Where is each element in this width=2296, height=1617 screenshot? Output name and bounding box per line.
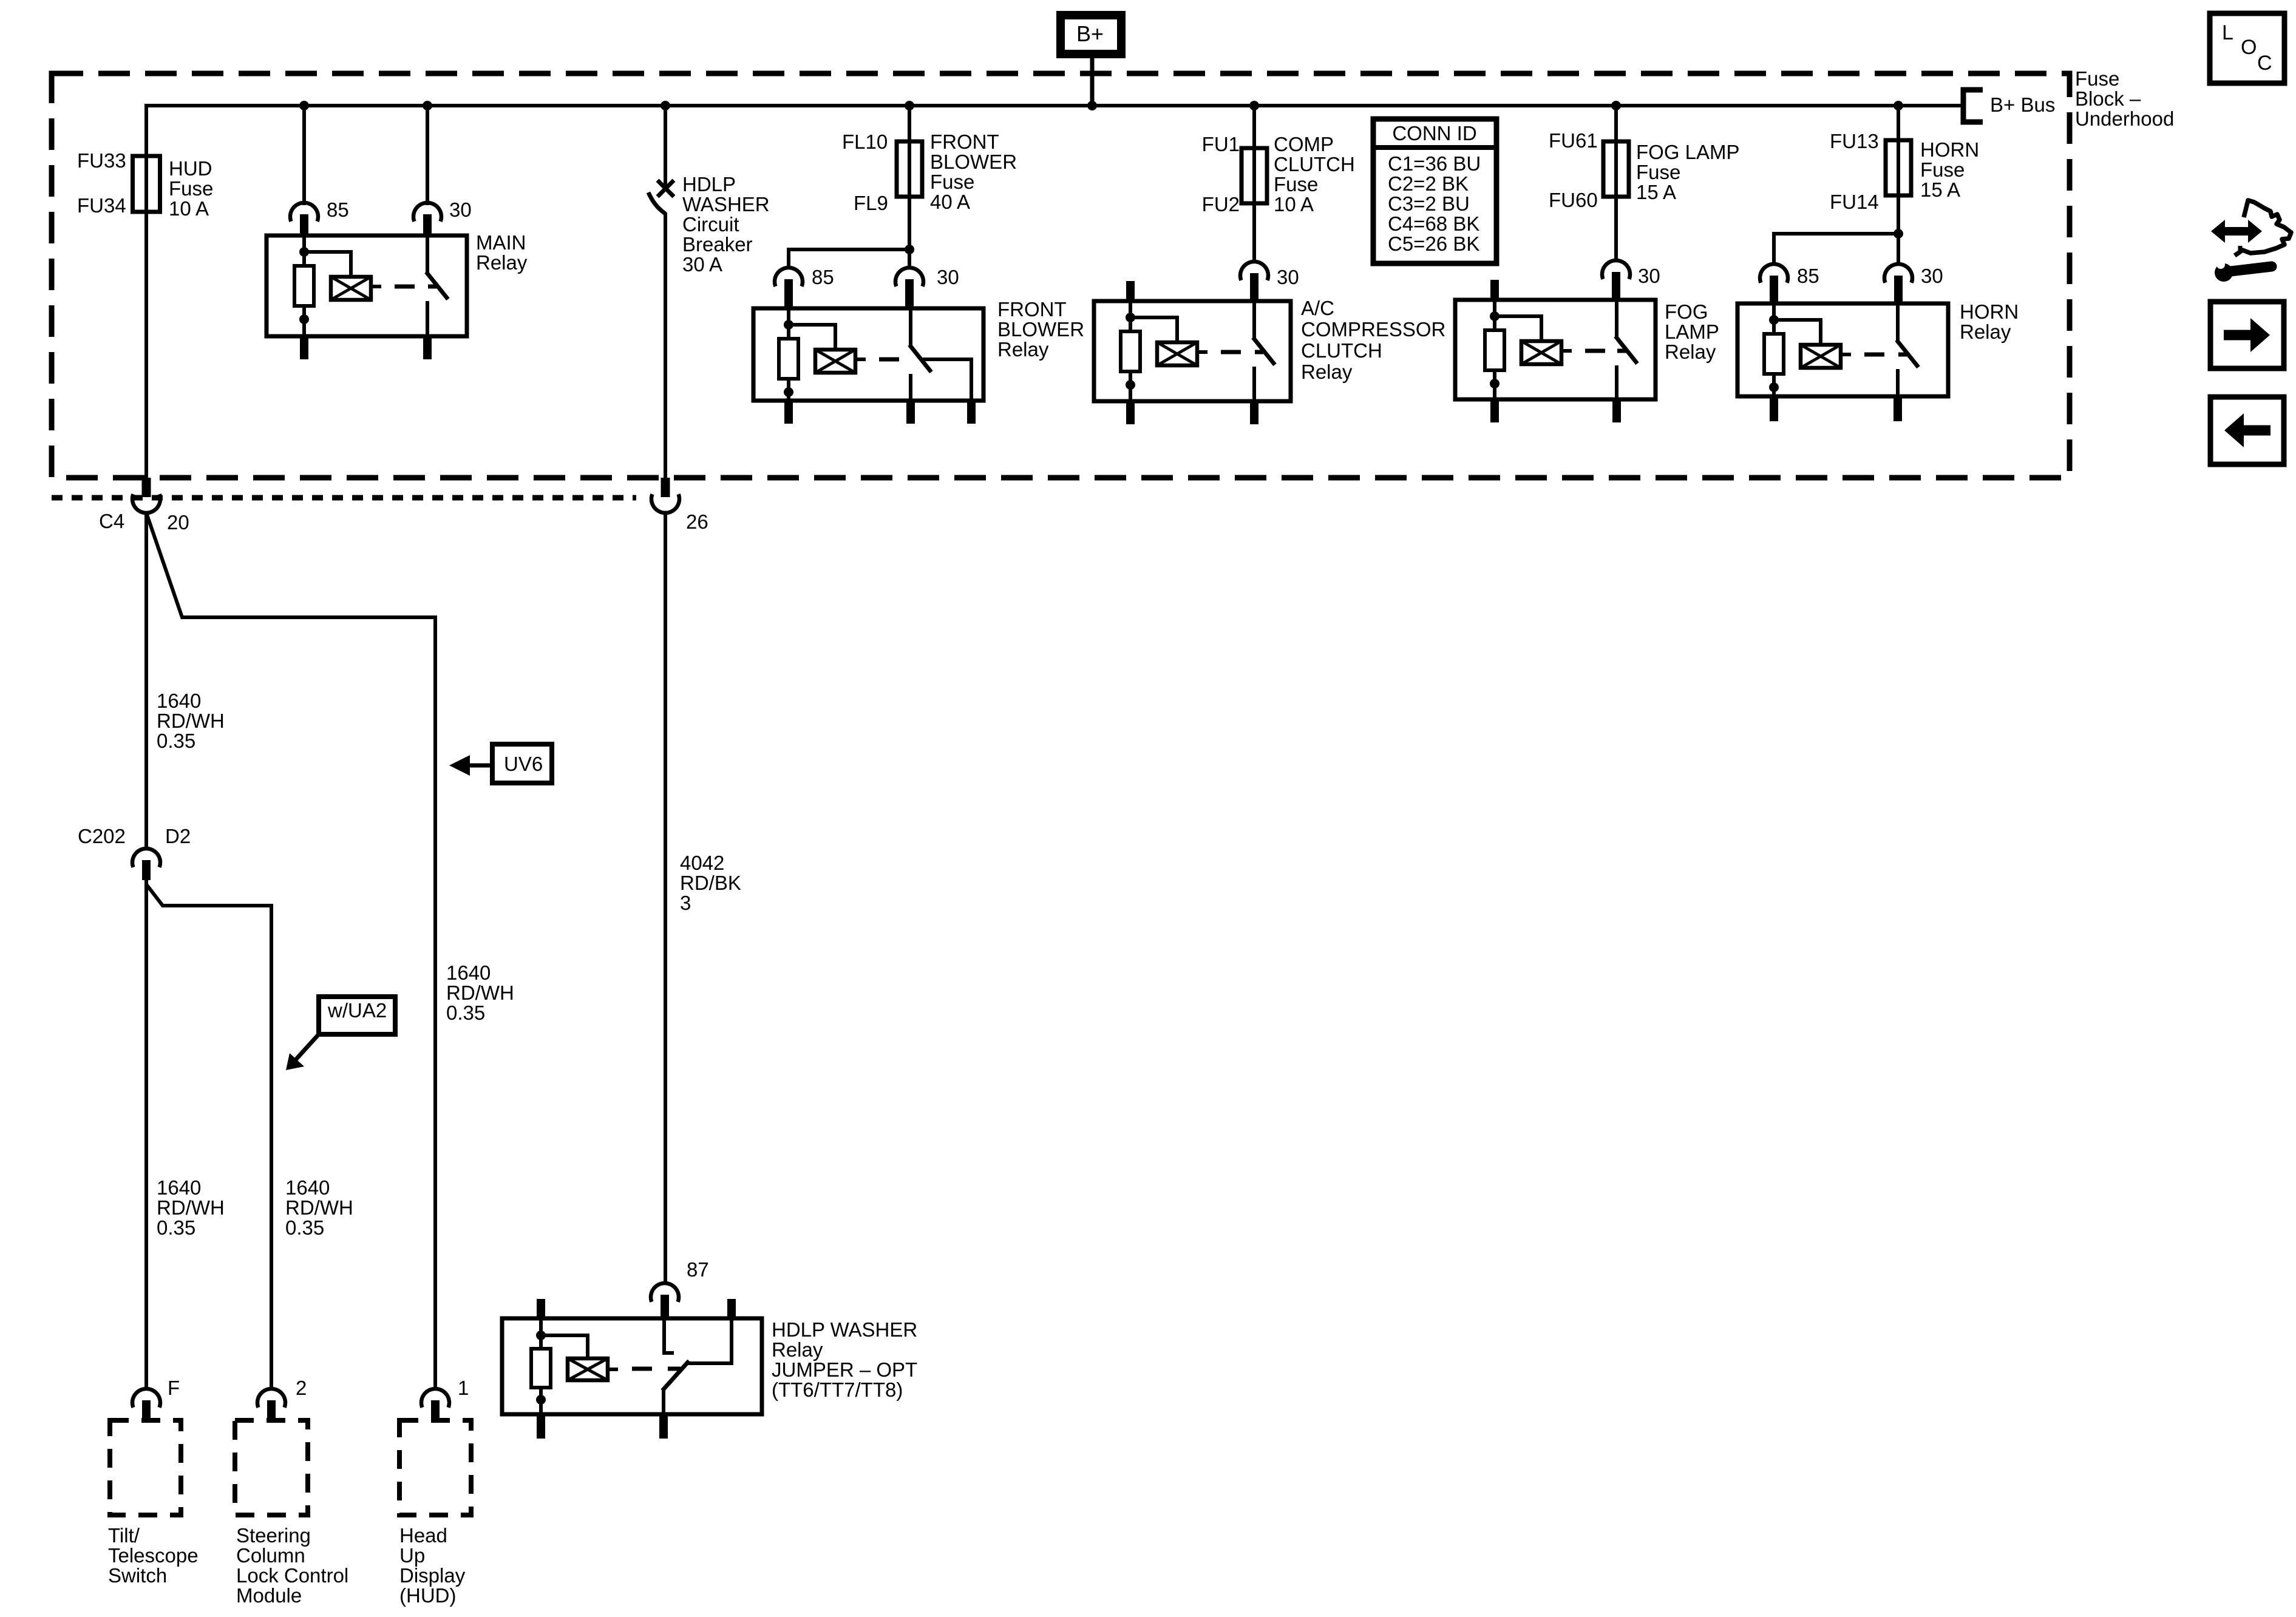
wire bus through FU13 fuse to junction xyxy=(1897,106,1900,236)
svg-text:40 A: 40 A xyxy=(930,191,970,213)
HDLP jumper junction dot top xyxy=(536,1331,546,1340)
FOG LAMP relay junction dot top xyxy=(1490,311,1500,321)
HORN relay coil feed wire xyxy=(1772,303,1776,335)
A/C relay coil actuator stub xyxy=(1197,350,1207,354)
HORN relay resistor xyxy=(1764,334,1784,374)
svg-text:0.35: 0.35 xyxy=(157,1216,195,1239)
svg-text:1: 1 xyxy=(458,1377,469,1399)
svg-text:Column: Column xyxy=(236,1544,305,1567)
svg-text:Relay: Relay xyxy=(1665,341,1716,363)
CONN ID table header divider xyxy=(1373,145,1496,150)
svg-text:BLOWER: BLOWER xyxy=(930,151,1017,173)
junction dot bus / FL10 fuse xyxy=(905,101,914,110)
HDLP jumper junction dot bottom xyxy=(536,1395,546,1405)
HDLP jumper wire resistor to box bottom xyxy=(539,1388,543,1414)
HDLP jumper bottom stub mid xyxy=(659,1414,668,1439)
MAIN relay switch blade xyxy=(426,272,448,299)
svg-text:FU61: FU61 xyxy=(1549,129,1598,152)
FOG LAMP relay coil loop wire xyxy=(1495,316,1541,341)
fuse FU1/FU2 COMP CLUTCH 10A xyxy=(1241,148,1267,203)
connector 26 male pin xyxy=(661,478,670,497)
FRONT BLOWER relay switch output wire to right pin xyxy=(923,359,971,401)
component box Steering Column Lock Control Module dashed xyxy=(235,1420,308,1515)
svg-text:87: 87 xyxy=(687,1258,709,1281)
FRONT BLOWER relay junction dot bottom xyxy=(784,387,793,397)
HORN relay junction dot bottom xyxy=(1769,382,1779,392)
svg-text:Breaker: Breaker xyxy=(682,233,753,256)
svg-text:RD/WH: RD/WH xyxy=(285,1196,353,1219)
FOG relay pin 30 male pin xyxy=(1612,272,1620,302)
fuse FU13/FU14 HORN 15A xyxy=(1886,140,1911,195)
svg-text:RD/WH: RD/WH xyxy=(157,710,225,732)
svg-text:Relay: Relay xyxy=(772,1338,823,1361)
connector pin 2 male pin xyxy=(267,1400,276,1423)
svg-text:FL10: FL10 xyxy=(842,131,888,153)
FRONT BLOWER relay pin 85 arc xyxy=(775,268,803,286)
icon forward arrow box xyxy=(2210,302,2284,368)
FRONT BLOWER relay switch contact xyxy=(909,374,912,401)
junction dot bus / MAIN 30 xyxy=(423,101,432,110)
svg-text:1640: 1640 xyxy=(446,961,491,984)
svg-text:C5=26 BK: C5=26 BK xyxy=(1388,232,1479,255)
svg-text:HUD: HUD xyxy=(169,157,212,180)
MAIN relay coil feed wire xyxy=(302,236,306,267)
HORN relay wire resistor to box bottom xyxy=(1772,374,1776,396)
relay HORN box xyxy=(1737,303,1948,396)
svg-text:Telescope: Telescope xyxy=(108,1544,199,1567)
svg-text:4042: 4042 xyxy=(680,852,724,874)
svg-text:HDLP: HDLP xyxy=(682,173,736,195)
svg-text:C4: C4 xyxy=(99,510,124,532)
component box Head Up Display dashed xyxy=(399,1420,471,1515)
junction dot front blower branch xyxy=(905,245,914,254)
svg-text:3: 3 xyxy=(680,892,691,914)
svg-text:A/C: A/C xyxy=(1301,297,1334,319)
svg-text:Switch: Switch xyxy=(108,1564,167,1587)
icon back arrow box xyxy=(2210,397,2284,464)
FRONT BLOWER relay coil winding symbol xyxy=(815,350,855,373)
svg-text:RD/WH: RD/WH xyxy=(157,1196,225,1219)
MAIN relay switch contact xyxy=(426,301,429,336)
FRONT BLOWER relay coil loop wire xyxy=(789,325,835,350)
svg-text:JUMPER – OPT: JUMPER – OPT xyxy=(772,1358,917,1381)
HDLP jumper switch contact from 87 xyxy=(664,1318,674,1353)
svg-text:Circuit: Circuit xyxy=(682,213,739,236)
svg-text:0.35: 0.35 xyxy=(446,1002,485,1024)
svg-text:HDLP WASHER: HDLP WASHER xyxy=(772,1318,917,1341)
A/C relay coil winding symbol xyxy=(1157,342,1197,365)
HORN relay coil actuator stub xyxy=(1841,353,1851,356)
svg-text:COMPRESSOR: COMPRESSOR xyxy=(1301,318,1445,341)
svg-text:C202: C202 xyxy=(78,825,126,847)
svg-text:Fuse: Fuse xyxy=(1636,161,1680,183)
HORN relay bottom stub right xyxy=(1894,396,1902,421)
A/C relay bottom stub right xyxy=(1250,401,1258,424)
svg-text:Underhood: Underhood xyxy=(2075,107,2174,130)
svg-text:C: C xyxy=(2257,52,2272,75)
svg-text:30: 30 xyxy=(937,266,959,288)
HDLP jumper switch lower wire xyxy=(662,1389,665,1414)
A/C relay switch feed wire xyxy=(1252,301,1256,339)
MAIN relay switch feed wire xyxy=(426,236,429,273)
FOG LAMP relay wire resistor to box bottom xyxy=(1493,370,1496,399)
FOG relay pin 30 arc xyxy=(1602,260,1630,279)
svg-text:Relay: Relay xyxy=(476,251,528,274)
A/C relay pin 30 arc xyxy=(1240,262,1268,280)
svg-text:Steering: Steering xyxy=(236,1524,311,1547)
A/C relay junction dot top xyxy=(1126,313,1135,322)
FRONT BLOWER relay coil actuator stub xyxy=(855,358,866,361)
svg-text:1640: 1640 xyxy=(285,1176,330,1199)
junction dot bus / MAIN 85 xyxy=(299,101,309,110)
wire C202 to tilt switch xyxy=(144,880,148,1389)
MAIN relay junction dot bottom xyxy=(299,314,309,324)
connector 26 female cup xyxy=(651,494,679,513)
HDLP jumper coil loop wire xyxy=(541,1335,588,1360)
FOG relay bottom stub left xyxy=(1490,399,1499,422)
A/C relay actuator dash xyxy=(1221,350,1241,354)
HORN relay coil loop wire xyxy=(1774,320,1821,345)
svg-text:15 A: 15 A xyxy=(1920,178,1960,201)
HDLP jumper top stub left xyxy=(537,1299,545,1320)
MAIN relay pin 85 connector arc xyxy=(290,203,318,222)
A/C relay switch hinge link xyxy=(1255,350,1263,354)
HORN relay switch feed wire xyxy=(1896,303,1900,341)
FOG LAMP relay junction dot bottom xyxy=(1490,379,1500,388)
HDLP jumper coil actuator stub xyxy=(608,1368,618,1371)
HORN relay switch blade xyxy=(1897,340,1918,367)
FRONT BLOWER relay bottom stub right xyxy=(967,401,976,424)
svg-text:MAIN: MAIN xyxy=(476,231,526,254)
icon LOC box xyxy=(2210,13,2284,83)
svg-text:0.35: 0.35 xyxy=(157,730,195,752)
junction dot bus / FU1 fuse xyxy=(1249,101,1259,110)
HDLP jumper pin 87 male pin xyxy=(661,1295,669,1320)
svg-text:CLUTCH: CLUTCH xyxy=(1274,153,1355,175)
junction dot bus / HDLP breaker xyxy=(661,101,670,110)
FOG LAMP relay resistor xyxy=(1485,330,1504,370)
HDLP jumper pin 87 arc xyxy=(651,1283,679,1302)
circuit breaker symbol X xyxy=(657,180,674,197)
connector pin F arc xyxy=(132,1389,160,1408)
svg-text:Display: Display xyxy=(399,1564,466,1587)
svg-text:D2: D2 xyxy=(165,825,191,847)
wire junction to horn 30 xyxy=(1897,234,1900,266)
svg-text:Module: Module xyxy=(236,1584,302,1607)
A/C relay junction dot bottom xyxy=(1126,380,1135,390)
HORN relay pin 85 arc xyxy=(1760,264,1788,283)
w/UA2 option box xyxy=(319,997,395,1034)
HORN relay bottom stub left xyxy=(1770,396,1778,421)
svg-text:Relay: Relay xyxy=(1960,320,2011,343)
connector pin 1 arc xyxy=(421,1389,449,1408)
junction dot bus / B+ feed xyxy=(1087,101,1097,110)
svg-text:FOG LAMP: FOG LAMP xyxy=(1636,141,1740,163)
A/C relay switch contact xyxy=(1252,367,1256,401)
MAIN relay switch hinge link xyxy=(428,285,436,289)
FOG LAMP relay switch contact xyxy=(1615,365,1618,399)
junction dot bus / FU61 fuse xyxy=(1611,101,1621,110)
svg-text:Fuse: Fuse xyxy=(1274,173,1318,195)
svg-text:1640: 1640 xyxy=(157,1176,201,1199)
FOG LAMP relay switch blade xyxy=(1615,336,1637,364)
icon body part outline xyxy=(2235,200,2291,256)
wire bus to MAIN relay pin 85 xyxy=(302,106,306,205)
HDLP jumper switch output wire xyxy=(688,1318,732,1363)
svg-text:Up: Up xyxy=(399,1544,425,1567)
FRONT BLOWER relay bottom stub mid xyxy=(906,401,915,424)
HORN relay switch hinge link xyxy=(1898,353,1907,357)
wire C4-20 to C202 xyxy=(144,513,148,849)
connector C202 pin D2 arc xyxy=(132,849,160,867)
power feed B+ symbol box xyxy=(1061,15,1121,54)
FOG relay coil top stub xyxy=(1490,280,1499,302)
svg-text:FL9: FL9 xyxy=(854,192,888,214)
HORN relay pin 30 male pin xyxy=(1894,276,1903,305)
HORN relay pin 30 arc xyxy=(1884,264,1912,283)
svg-text:FU13: FU13 xyxy=(1830,130,1879,152)
FOG relay bottom stub right xyxy=(1612,399,1621,422)
connector row dotted line C4 xyxy=(52,495,636,501)
svg-text:2: 2 xyxy=(296,1377,307,1399)
svg-text:Lock Control: Lock Control xyxy=(236,1564,348,1587)
svg-text:C2=2 BK: C2=2 BK xyxy=(1388,172,1469,195)
relay HDLP WASHER jumper box xyxy=(502,1318,762,1414)
svg-text:B+: B+ xyxy=(1076,21,1104,46)
FOG LAMP relay coil winding symbol xyxy=(1521,341,1561,364)
svg-text:FRONT: FRONT xyxy=(930,131,999,153)
relay MAIN box xyxy=(267,236,467,336)
svg-text:HORN: HORN xyxy=(1920,138,1979,161)
svg-text:FU33: FU33 xyxy=(77,149,126,172)
wire bus through FL10 fuse to junction xyxy=(908,106,911,251)
svg-text:1640: 1640 xyxy=(157,690,201,712)
FOG LAMP relay switch feed wire xyxy=(1615,300,1618,337)
fuse block underhood dashed border xyxy=(52,73,2070,478)
svg-text:BLOWER: BLOWER xyxy=(997,318,1084,341)
svg-text:FU1: FU1 xyxy=(1202,133,1240,155)
A/C relay pin 30 male pin xyxy=(1250,273,1258,303)
w/UA2 option arrow xyxy=(295,1034,319,1060)
wire branch to horn 85 xyxy=(1774,234,1898,266)
icon body repair double arrow xyxy=(2224,227,2249,236)
svg-text:Fuse: Fuse xyxy=(169,177,213,200)
MAIN relay wire resistor to box bottom xyxy=(302,306,306,336)
connector pin F male pin xyxy=(142,1400,151,1423)
wire bus to circuit breaker xyxy=(664,106,667,186)
FRONT BLOWER relay coil feed wire xyxy=(787,308,790,340)
relay FOG LAMP box xyxy=(1455,300,1656,399)
svg-text:RD/WH: RD/WH xyxy=(446,981,514,1004)
HORN relay junction dot top xyxy=(1769,315,1779,325)
FRONT BLOWER relay bottom stub left xyxy=(784,401,793,424)
MAIN relay resistor xyxy=(294,266,314,306)
wire connector 26 to relay 87 xyxy=(664,513,667,1284)
svg-text:Block –: Block – xyxy=(2075,87,2141,110)
svg-text:w/UA2: w/UA2 xyxy=(327,999,387,1022)
wire branch to front blower 85 xyxy=(789,249,909,269)
svg-text:LAMP: LAMP xyxy=(1665,320,1719,343)
wire bus through FU1 fuse to A/C relay 30 xyxy=(1252,106,1256,263)
svg-text:30: 30 xyxy=(1921,265,1943,287)
FRONT BLOWER relay pin 85 male pin xyxy=(784,279,793,310)
relay FRONT BLOWER box xyxy=(753,308,983,401)
svg-text:B+ Bus: B+ Bus xyxy=(1990,93,2055,116)
svg-text:Relay: Relay xyxy=(997,338,1049,361)
wire bus through FU61 fuse to FOG relay 30 xyxy=(1614,106,1618,262)
FRONT BLOWER relay pin 30 male pin xyxy=(905,279,914,310)
HDLP jumper bottom stub left xyxy=(537,1414,545,1439)
svg-text:Relay: Relay xyxy=(1301,361,1353,383)
svg-text:WASHER: WASHER xyxy=(682,193,770,215)
svg-text:Head: Head xyxy=(399,1524,447,1547)
fuse FL10/FL9 FRONT BLOWER 40A xyxy=(897,141,922,197)
relay A/C COMPRESSOR CLUTCH box xyxy=(1094,301,1291,401)
svg-text:Fuse: Fuse xyxy=(2075,67,2119,90)
connector C4 pin 20 male pin xyxy=(142,478,151,497)
svg-text:10 A: 10 A xyxy=(169,197,209,220)
wire branch C202 to steering column module xyxy=(146,884,271,1389)
wire B+ bus horizontal xyxy=(146,106,1961,481)
svg-text:85: 85 xyxy=(327,198,349,221)
svg-text:FU14: FU14 xyxy=(1830,191,1879,213)
svg-text:FU60: FU60 xyxy=(1549,189,1598,211)
MAIN relay coil actuator stub xyxy=(371,285,381,288)
FRONT BLOWER relay pin 30 arc xyxy=(895,268,923,286)
svg-text:RD/BK: RD/BK xyxy=(680,872,741,894)
svg-text:30: 30 xyxy=(1638,265,1660,287)
circuit breaker blade xyxy=(648,192,665,214)
junction dot horn branch xyxy=(1894,229,1903,239)
MAIN relay actuator dash xyxy=(395,285,415,289)
svg-text:UV6: UV6 xyxy=(504,753,543,775)
connector C4 pin 20 female cup xyxy=(132,494,160,513)
HDLP jumper resistor xyxy=(531,1349,551,1388)
A/C relay switch blade xyxy=(1253,337,1275,365)
MAIN relay bottom stub left xyxy=(300,336,308,359)
fuse FU61/FU60 FOG LAMP 15A xyxy=(1603,141,1629,197)
MAIN relay coil loop wire xyxy=(304,252,351,277)
svg-text:FOG: FOG xyxy=(1665,300,1708,323)
wire B+ feed to bus xyxy=(1090,58,1095,106)
svg-text:O: O xyxy=(2241,36,2257,59)
HORN relay coil winding symbol xyxy=(1801,345,1841,368)
wire junction to front blower 30 xyxy=(908,249,911,269)
svg-text:L: L xyxy=(2222,21,2233,44)
MAIN relay junction dot top xyxy=(299,247,309,257)
MAIN relay pin 30 male pin xyxy=(423,214,432,237)
svg-text:Tilt/: Tilt/ xyxy=(108,1524,140,1547)
wire bus to MAIN relay pin 30 xyxy=(426,106,429,205)
svg-text:10 A: 10 A xyxy=(1274,193,1314,215)
component box Tilt/Telescope Switch dashed xyxy=(110,1420,181,1515)
wire branch C4 to head-up display xyxy=(146,513,435,1389)
FRONT BLOWER relay actuator dash xyxy=(879,358,899,362)
svg-text:C1=36 BU: C1=36 BU xyxy=(1388,152,1481,175)
FRONT BLOWER relay junction dot top xyxy=(784,320,793,330)
svg-text:85: 85 xyxy=(812,266,834,288)
UV6 option box xyxy=(492,744,552,783)
svg-text:Fuse: Fuse xyxy=(930,171,974,193)
icon wrench xyxy=(2215,263,2233,282)
svg-text:FRONT: FRONT xyxy=(997,298,1067,320)
svg-text:HORN: HORN xyxy=(1960,300,2019,323)
svg-text:F: F xyxy=(168,1377,180,1399)
A/C relay coil top stub xyxy=(1126,281,1135,303)
svg-text:(HUD): (HUD) xyxy=(399,1584,456,1607)
svg-text:0.35: 0.35 xyxy=(285,1216,324,1239)
B+ Bus connector bracket xyxy=(1963,90,1983,122)
FOG LAMP relay coil actuator stub xyxy=(1561,349,1572,353)
svg-text:20: 20 xyxy=(167,511,189,534)
HDLP jumper switch blade xyxy=(662,1361,689,1391)
FOG LAMP relay coil feed wire xyxy=(1493,300,1496,331)
HORN relay switch contact xyxy=(1896,369,1900,396)
FRONT BLOWER relay switch blade xyxy=(909,345,931,372)
HORN relay actuator dash xyxy=(1864,353,1884,357)
HDLP jumper switch hinge link xyxy=(668,1367,681,1371)
svg-text:C3=2 BU: C3=2 BU xyxy=(1388,192,1470,215)
CONN ID table box xyxy=(1373,119,1496,263)
svg-text:30 A: 30 A xyxy=(682,253,722,276)
svg-text:CLUTCH: CLUTCH xyxy=(1301,339,1382,362)
svg-text:CONN ID: CONN ID xyxy=(1392,122,1476,144)
HDLP jumper top stub right xyxy=(727,1299,736,1320)
svg-text:Fuse: Fuse xyxy=(1920,158,1965,181)
A/C relay wire resistor to box bottom xyxy=(1129,371,1132,401)
A/C relay coil feed wire xyxy=(1129,301,1132,333)
svg-text:30: 30 xyxy=(1277,266,1299,288)
HDLP jumper actuator dash xyxy=(632,1367,652,1371)
svg-text:COMP: COMP xyxy=(1274,133,1334,155)
fuse FU33/FU34 HUD 10A xyxy=(133,156,160,212)
MAIN relay pin 85 male pin xyxy=(300,214,308,237)
svg-text:(TT6/TT7/TT8): (TT6/TT7/TT8) xyxy=(772,1378,903,1401)
connector pin 2 arc xyxy=(257,1389,285,1408)
MAIN relay bottom stub right xyxy=(423,336,432,359)
HDLP jumper coil feed wire xyxy=(539,1318,543,1350)
A/C relay bottom stub left xyxy=(1126,401,1135,424)
svg-text:26: 26 xyxy=(686,510,708,533)
MAIN relay coil winding symbol xyxy=(331,277,371,300)
svg-text:15 A: 15 A xyxy=(1636,181,1676,203)
wire breaker to connector 26 xyxy=(664,212,667,481)
svg-text:FU34: FU34 xyxy=(77,194,126,217)
svg-text:FU2: FU2 xyxy=(1202,193,1240,215)
FRONT BLOWER relay resistor xyxy=(779,339,798,379)
MAIN relay pin 30 connector arc xyxy=(413,203,441,222)
HDLP jumper coil winding symbol xyxy=(568,1358,608,1380)
A/C relay resistor xyxy=(1121,331,1140,371)
FOG LAMP relay actuator dash xyxy=(1585,349,1605,353)
svg-text:30: 30 xyxy=(449,198,472,221)
connector C202 pin D2 male pin xyxy=(142,860,151,880)
FRONT BLOWER relay wire resistor to box bottom xyxy=(787,379,790,401)
FOG LAMP relay switch hinge link xyxy=(1617,349,1626,353)
svg-text:85: 85 xyxy=(1797,265,1819,287)
UV6 option arrow xyxy=(469,764,493,768)
FRONT BLOWER relay switch feed wire xyxy=(909,308,912,346)
junction dot bus / FU13 fuse xyxy=(1894,101,1903,110)
connector pin 1 male pin xyxy=(431,1400,440,1423)
A/C relay coil loop wire xyxy=(1130,317,1177,342)
HORN relay pin 85 male pin xyxy=(1770,276,1778,305)
svg-text:C4=68 BK: C4=68 BK xyxy=(1388,212,1479,235)
